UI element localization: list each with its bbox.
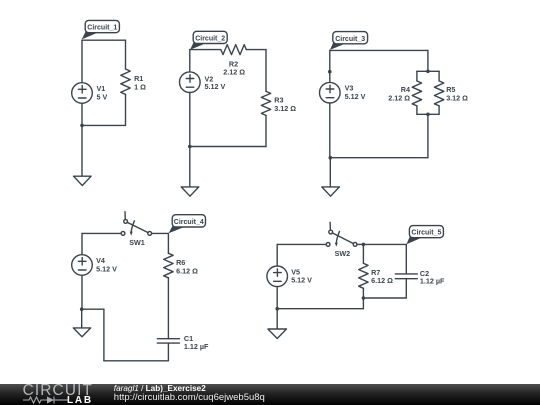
- wire C4 to ground node: [82, 308, 104, 310]
- wire V1 bottom: [81, 103, 83, 125]
- wire C1 cap bottom: [167, 343, 169, 361]
- wire C2 top segment: [405, 244, 407, 274]
- wire R3 bottom: [265, 115, 267, 146]
- wire V3 top: [329, 50, 331, 82]
- wire C1 top (node Circuit_1): [82, 39, 126, 41]
- svg-text:5.12 V: 5.12 V: [96, 264, 117, 273]
- junction C5 ground node: [275, 307, 279, 311]
- junction parallel top: [426, 70, 430, 74]
- switch SW2: [326, 243, 330, 247]
- resistor R3: [261, 91, 270, 115]
- svg-text:2.12 Ω: 2.12 Ω: [388, 93, 410, 102]
- svg-text:2.12 Ω: 2.12 Ω: [223, 67, 245, 76]
- svg-text:R3: R3: [274, 95, 283, 104]
- wire C5 top-left to switch: [277, 243, 326, 245]
- wire parallel top bar: [417, 70, 439, 72]
- wire R6 to C1 cap: [167, 278, 169, 339]
- wire C2 bottom to junction: [363, 297, 406, 299]
- wire C2 bottom segment: [405, 279, 407, 298]
- junction C1 ground node: [80, 124, 84, 128]
- net label Circuit_3: [330, 41, 347, 50]
- svg-text:SW1: SW1: [129, 238, 145, 247]
- svg-text:3.12 Ω: 3.12 Ω: [274, 104, 296, 113]
- wire C4 top-left to switch: [82, 232, 121, 234]
- wire to ground C4: [81, 309, 83, 328]
- junction V3 top wire: [328, 70, 332, 74]
- resistor R4: [412, 81, 421, 106]
- capacitor C1: [157, 338, 179, 340]
- resistor R7: [359, 263, 368, 288]
- junction C2 ground node: [188, 145, 192, 149]
- wire to ground C1: [81, 125, 83, 176]
- voltage source V5: [267, 266, 288, 287]
- wire SW1 to node Circuit_4: [152, 232, 169, 234]
- voltage source V2: [180, 72, 201, 93]
- wire C3 top (node Circuit_3): [330, 49, 428, 51]
- junction R7/C2 bottom: [362, 296, 366, 300]
- CircuitLab logo wordmark CIRCUIT: [23, 382, 93, 400]
- junction C3 ground node: [329, 156, 333, 160]
- wire V1 top: [81, 40, 83, 82]
- CircuitLab logo schematic squiggle (resistor + diode): [23, 395, 69, 405]
- wire V4 top: [81, 233, 83, 254]
- footer url text: [114, 392, 265, 403]
- wire to ground C3: [329, 158, 331, 187]
- footer title text: [114, 384, 206, 393]
- wire R5 bottom: [438, 106, 440, 114]
- wire to ground C2: [189, 147, 191, 187]
- svg-text:1 Ω: 1 Ω: [134, 83, 146, 92]
- wire R4 bottom: [416, 106, 418, 114]
- wire R7 top segment: [362, 244, 364, 263]
- ground C5: [268, 329, 287, 339]
- junction R7 top: [362, 243, 366, 247]
- wire C4 bottom run: [104, 360, 168, 362]
- svg-text:5 V: 5 V: [97, 93, 108, 102]
- wire C1 bottom: [82, 124, 126, 126]
- svg-text:1.12 µF: 1.12 µF: [420, 277, 445, 286]
- wire R1 bottom: [125, 94, 127, 125]
- wire C4 bottom riser: [103, 309, 105, 361]
- wire parallel bottom bar: [417, 113, 439, 115]
- svg-text:1.12 µF: 1.12 µF: [184, 342, 209, 351]
- svg-text:Circuit_2: Circuit_2: [195, 34, 225, 43]
- svg-text:Circuit_4: Circuit_4: [174, 217, 204, 226]
- wire V3 bottom: [329, 103, 331, 158]
- junction C4 ground node: [80, 307, 84, 311]
- ground C2: [181, 187, 199, 196]
- svg-text:5.12 V: 5.12 V: [291, 276, 312, 285]
- wire C2 top-left corner to R2: [190, 49, 221, 51]
- switch SW1: [121, 232, 125, 236]
- resistor R6: [164, 253, 173, 277]
- svg-text:3.12 Ω: 3.12 Ω: [446, 93, 468, 102]
- voltage source V4: [72, 255, 93, 276]
- wire V5 top: [276, 244, 278, 266]
- voltage source V3: [320, 82, 341, 103]
- wire V2 top: [189, 50, 191, 72]
- wire C2 bottom: [190, 146, 266, 148]
- wire R7 bottom segment: [362, 288, 364, 308]
- wire C3 bottom: [330, 157, 428, 159]
- resistor R5: [434, 81, 443, 106]
- wire to ground C5: [276, 309, 278, 329]
- footer watermark bar: [0, 384, 540, 405]
- wire parallel block top: [427, 50, 429, 71]
- svg-text:Circuit_1: Circuit_1: [87, 23, 117, 32]
- resistor R2: [221, 45, 246, 55]
- svg-text:5.12 V: 5.12 V: [345, 92, 366, 101]
- junction parallel bottom: [426, 113, 430, 117]
- wire parallel block bottom: [427, 114, 429, 157]
- net label Circuit_4: [169, 225, 187, 234]
- net label Circuit_1: [82, 30, 100, 39]
- net label Circuit_5: [406, 235, 424, 244]
- wire R2 to right corner: [246, 49, 266, 51]
- wire V5 bottom: [276, 287, 278, 309]
- wire V2 bottom: [189, 93, 191, 147]
- net label Circuit_2: [190, 41, 208, 50]
- wire R5 top: [438, 71, 440, 81]
- capacitor C2: [395, 273, 417, 275]
- wire R4 top: [416, 71, 418, 81]
- wire V4 bottom: [81, 275, 83, 309]
- svg-text:SW2: SW2: [335, 249, 351, 258]
- ground C1: [74, 176, 92, 185]
- CircuitLab logo wordmark LAB: [67, 395, 93, 405]
- ground C3: [322, 187, 340, 196]
- wire R1 top: [125, 40, 127, 69]
- voltage source V1: [72, 83, 93, 104]
- svg-text:6.12 Ω: 6.12 Ω: [176, 266, 198, 275]
- wire R3 top: [265, 50, 267, 92]
- wire R6 top: [167, 233, 169, 253]
- svg-text:Circuit_3: Circuit_3: [335, 34, 365, 43]
- resistor R1: [121, 69, 130, 94]
- svg-text:5.12 V: 5.12 V: [205, 82, 226, 91]
- ground C4: [73, 328, 90, 337]
- wire C5 bottom: [277, 308, 363, 310]
- svg-text:6.12 Ω: 6.12 Ω: [371, 276, 393, 285]
- wire SW2 to node Circuit_5: [357, 243, 406, 245]
- svg-text:Circuit_5: Circuit_5: [411, 228, 441, 237]
